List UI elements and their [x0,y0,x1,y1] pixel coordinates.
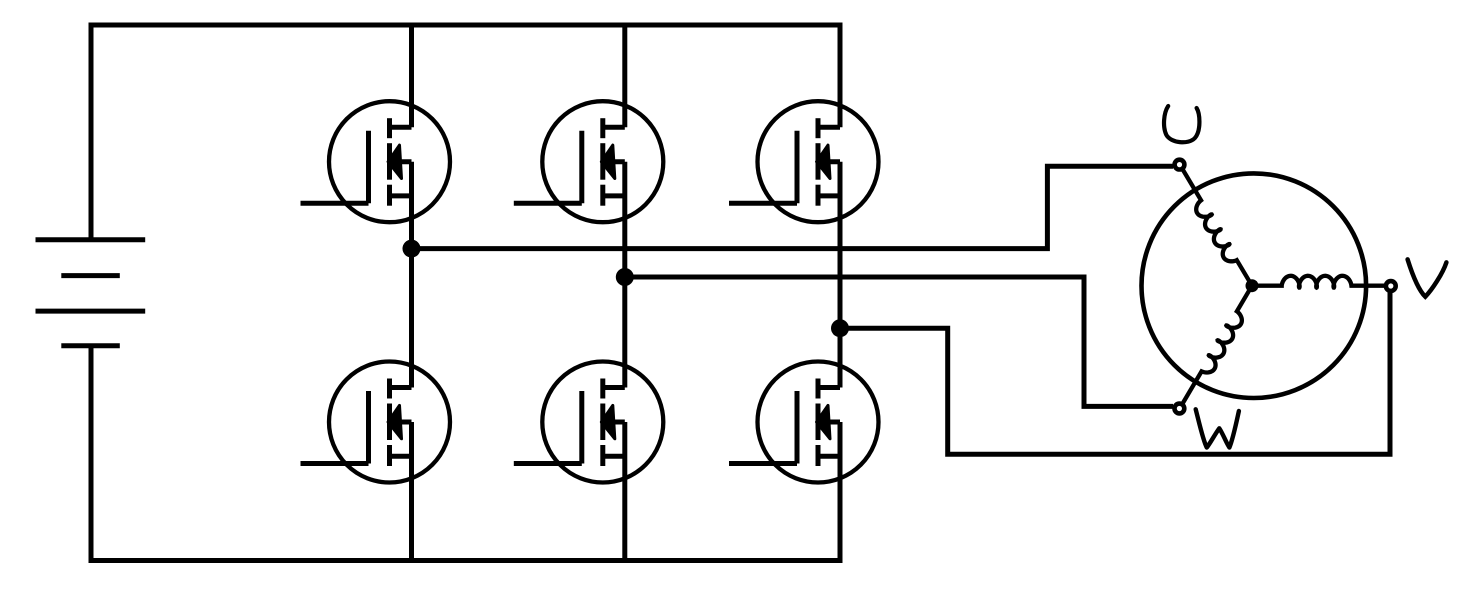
node motor star point [1246,279,1259,292]
transistor Q5 (low side, phase V) [514,362,664,483]
motor winding U (upper left) [1171,163,1254,290]
motor M1 stator circle [1142,173,1367,398]
transistor Q2 (high side, phase V) [514,101,664,222]
wire phase 1 to motor terminal U [412,166,1174,248]
battery BT1 [36,240,146,346]
node open terminal V [1386,281,1396,291]
label U [1164,106,1199,142]
node junction phase W [831,319,849,337]
label V [1408,259,1447,296]
motor winding V (right) [1252,276,1391,288]
node open terminal U [1175,160,1185,170]
label W [1196,409,1239,447]
wire leg 1 midpoint vertical [409,162,414,388]
transistor Q4 (low side, phase U) [301,362,451,483]
wire phase 2 to motor terminal W [625,277,1173,406]
node junction phase U [403,240,421,258]
wire leg 3 midpoint vertical [838,162,843,388]
transistor Q3 (high side, phase W) [729,101,879,222]
node open terminal W [1175,404,1185,414]
wire leg 2 midpoint vertical [622,162,627,388]
wire leg 1 source to bottom rail [409,422,414,561]
wire phase 3 to motor terminal V [840,288,1390,454]
motor winding W (lower left) [1178,285,1261,414]
wire leg 2 source to bottom rail [622,422,627,561]
wire battery negative to bottom rail to leg 3 source [91,346,840,561]
transistor Q6 (low side, phase W) [729,362,879,483]
wire leg 2 drain from top rail [622,25,627,127]
node junction phase V [616,268,634,286]
wire leg 1 drain from top rail [409,25,414,127]
transistor Q1 (high side, phase U) [301,101,451,222]
wire battery positive to top rail to leg 3 drain [91,25,840,240]
